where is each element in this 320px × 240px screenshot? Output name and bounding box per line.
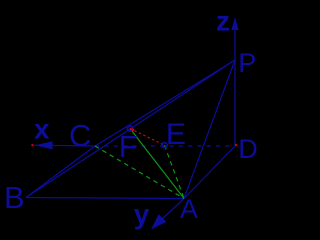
svg-text:y: y [134, 199, 150, 230]
svg-text:P: P [238, 48, 256, 78]
svg-text:C: C [69, 118, 91, 153]
svg-text:x: x [34, 114, 50, 145]
svg-text:z: z [216, 6, 230, 37]
svg-text:E: E [166, 118, 186, 151]
svg-text:D: D [238, 134, 257, 164]
svg-text:A: A [180, 194, 198, 224]
svg-text:B: B [4, 180, 25, 215]
svg-text:F: F [119, 129, 138, 164]
